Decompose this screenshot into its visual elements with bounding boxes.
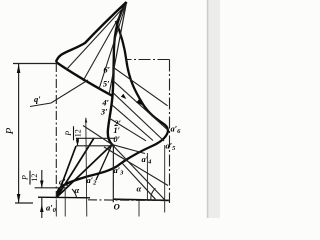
svg-text:α: α [75, 185, 80, 195]
junction point 0' [110, 143, 113, 146]
angle alpha arc at V [151, 188, 156, 199]
generator line in sail (4) [109, 4, 126, 95]
construction line a'0 to level 0' [57, 146, 76, 197]
paper background [0, 0, 220, 218]
baseline division vertical (right of O) [138, 200, 140, 217]
page edge shadow line [207, 0, 209, 218]
dimension P/12 middle: upper arrowhead [76, 138, 79, 144]
small arrow at point B [121, 94, 126, 99]
page edge gray strip [208, 0, 220, 218]
tangent line from point 5' [113, 81, 168, 130]
dash-dot vertical centerline through a'6 [169, 60, 171, 204]
arrow tip on a'2 vertical [85, 117, 88, 123]
dimension P/12 middle: dimension line [77, 138, 79, 146]
baseline right segment [113, 199, 169, 200]
projection vertical from a'1 [64, 188, 66, 217]
line into 0' from upper left [83, 126, 112, 145]
generator line in sail (3) [99, 5, 126, 89]
svg-text:O: O [114, 202, 120, 212]
svg-text:α: α [137, 184, 142, 194]
dimension P/12 middle: extension line at level 0' [76, 145, 115, 147]
helix frontal projection: right branch through a'6..a'0 [57, 21, 168, 197]
projection vertical from a'5 / V [164, 145, 166, 213]
dimension P: top arrowhead [17, 64, 21, 73]
development sail: upper-left edge from apex to left tip q-point [56, 2, 127, 62]
svg-text:q′: q′ [34, 94, 41, 104]
svg-text:0′: 0′ [113, 134, 120, 144]
svg-text:12: 12 [74, 129, 83, 137]
generator q' with leader [30, 80, 88, 107]
tangent line from point 4' [113, 93, 164, 141]
dash-dot horizontal centerline through O [88, 199, 170, 202]
dimension P/12 middle: lower arrowhead [76, 140, 79, 146]
hypotenuse 0' to V [112, 145, 165, 200]
dimension P: bottom arrowhead [17, 194, 21, 203]
label P/12 bottom-left (rotated fraction) [21, 171, 40, 185]
hypotenuse a'0 to 0' [57, 145, 112, 198]
dimension P/12 bottom-left: extension line [35, 187, 66, 189]
dimension P/12 middle: extension line at level 1' [76, 137, 116, 139]
dash-dot centerline through a'0 [55, 63, 57, 199]
svg-text:5′: 5′ [103, 79, 110, 89]
svg-text:P: P [64, 131, 73, 137]
svg-text:3′: 3′ [100, 107, 108, 117]
projection vertical below a'0 [55, 200, 57, 217]
dash-dot horizontal centerline top [126, 59, 170, 61]
short line 0' down-left [96, 145, 112, 181]
helix frontal projection: upper-left branch (sail lower edge) [56, 62, 113, 96]
generator line in sail (2) [83, 5, 126, 81]
projection vertical from a'2 [86, 118, 87, 217]
construction line a'0 to level 1' [57, 138, 94, 197]
line 0' to a'4 [112, 145, 145, 154]
label P/12 middle (rotated fraction) [64, 126, 83, 140]
angle alpha arc at a'0 [72, 189, 77, 197]
tangent line from point 2' [109, 118, 146, 141]
generator line in sail (1) [66, 5, 126, 70]
dimension P: bottom extension line [15, 202, 33, 204]
shallow construction line to dash-dot axis [104, 147, 168, 186]
dimension P/12 bottom-left: lower arrowhead [40, 205, 44, 213]
axis vertical through O [112, 145, 114, 203]
projection vertical from a'4 [146, 153, 148, 200]
svg-text:P: P [4, 127, 16, 135]
svg-text:6′: 6′ [103, 65, 110, 75]
direction arrow on helix curve [136, 98, 144, 106]
dimension P/12 bottom-left: upper arrowhead [40, 181, 44, 188]
tangent line from point 6' [114, 68, 168, 106]
dimension P/12 bottom-left: upper dimension line [41, 170, 43, 188]
svg-text:12: 12 [30, 174, 39, 182]
fan line to baseline (inner) [122, 163, 156, 199]
dimension P: top extension line [13, 63, 56, 65]
development sail: right edge through points 6'..0' [108, 2, 127, 145]
baseline left segment [38, 196, 90, 199]
dimension P/12 bottom-left: lower dimension line [41, 197, 43, 218]
svg-text:P: P [21, 175, 30, 181]
tangent line from point 3' [112, 105, 153, 141]
dimension P: dimension line [18, 64, 20, 203]
